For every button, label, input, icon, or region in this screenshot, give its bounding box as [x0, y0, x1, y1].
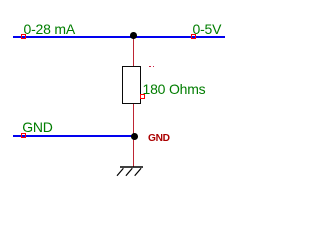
node A junction dot top: [130, 32, 137, 39]
pin dot 2 above value label: [153, 66, 155, 68]
terminal marker top-right (red square): [191, 34, 196, 39]
wire W4 vertical red: resistor bottom to ground: [133, 104, 135, 167]
label GND (small red, at node): [148, 135, 170, 143]
label 0-28 mA: [24, 22, 76, 36]
terminal marker top-left (red square): [21, 34, 26, 39]
label GND (green, left): [22, 120, 53, 134]
ground symbol: [112, 160, 148, 182]
terminal marker bottom-left (red square): [21, 133, 26, 138]
label 0-5V: [193, 22, 222, 36]
wire W1 top horizontal (0-28mA to 0-5V): [13, 36, 225, 38]
pin marker resistor right (red square): [140, 94, 145, 99]
pin dot 1 above value label: [149, 66, 151, 68]
node B junction dot bottom: [131, 133, 138, 140]
wire W2 bottom horizontal (GND rail): [13, 135, 134, 137]
resistor R1 body (box symbol): [122, 66, 141, 104]
wire W3 vertical red: node to resistor top: [133, 36, 135, 66]
label 180 Ohms (resistor value): [143, 82, 206, 96]
